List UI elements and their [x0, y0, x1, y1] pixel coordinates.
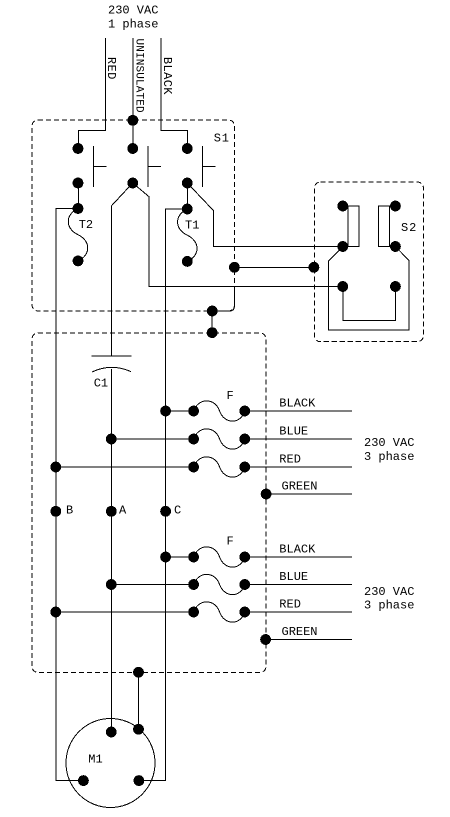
fuse F black1 [194, 401, 245, 421]
fuse terminal [188, 552, 199, 563]
wire output green2 [266, 639, 352, 641]
label 230 VAC 3 phase bank1 [364, 436, 414, 464]
switch S2 enclosure [314, 182, 423, 342]
svg-text:RED: RED [279, 598, 301, 612]
svg-text:BLACK: BLACK [279, 397, 316, 411]
S2 contact 2R [390, 241, 401, 252]
wire output black1 [245, 410, 352, 412]
motor terminal bottom left [78, 775, 89, 786]
switch S1 enclosure [32, 120, 235, 311]
S2 jumper bracket left [343, 206, 359, 247]
wire output green1 [266, 493, 352, 495]
fuse red1 [194, 457, 245, 477]
svg-text:230 VAC: 230 VAC [364, 585, 414, 599]
node phase B label [50, 506, 61, 517]
label 230 VAC 3 phase bank2 [364, 585, 414, 612]
wire BLACK input [161, 38, 188, 149]
svg-text:M1: M1 [88, 752, 102, 766]
svg-text:C: C [174, 503, 181, 517]
S2 contact 3L [337, 281, 348, 292]
S1 contact 3B [182, 178, 193, 189]
wire phase C drop [139, 209, 187, 781]
label 230 VAC 1 phase [108, 3, 158, 31]
node S2 boundary terminal [309, 262, 320, 273]
node phase A tap blue2 [106, 579, 117, 590]
wire UNINSULATED input [132, 38, 134, 149]
S1 pole bar 2 [148, 146, 161, 187]
wire A tap to fuse [111, 438, 193, 440]
svg-text:T1: T1 [185, 219, 199, 233]
fuse terminal [239, 552, 250, 563]
node input junction [127, 115, 138, 126]
wire row2 to T1 terminal [186, 183, 188, 209]
capacitor C1 [92, 356, 132, 372]
wire C tap to fuse [166, 410, 194, 412]
svg-text:RED: RED [104, 57, 118, 80]
svg-text:BLUE: BLUE [279, 425, 308, 439]
fuse terminal [188, 579, 199, 590]
S1 pole bar 1 [93, 146, 106, 187]
S2 contact 1R [390, 201, 401, 212]
svg-text:3 phase: 3 phase [364, 450, 414, 464]
node panel bottom terminal [133, 667, 144, 678]
node phase C tap black2 [160, 552, 171, 563]
S1 contact 1A [73, 143, 84, 154]
fuse terminal [239, 434, 250, 445]
svg-text:3 phase: 3 phase [364, 598, 414, 612]
S2 run winding outline [329, 247, 410, 331]
S1 contact 1B [73, 178, 84, 189]
node phase A label [106, 506, 117, 517]
S1 pole bar 3 [203, 146, 216, 187]
motor terminal top right [133, 724, 144, 735]
svg-text:T2: T2 [79, 218, 93, 232]
node phase B tap red1 [50, 462, 61, 473]
svg-text:BLACK: BLACK [160, 57, 174, 95]
node panel top terminal [207, 327, 218, 338]
S1 terminal T1 top [182, 204, 193, 215]
wire phase A branch [111, 183, 132, 356]
fuse terminal [239, 406, 250, 417]
node S1 bottom terminal [207, 306, 218, 317]
wire S1 to panel terminal [212, 286, 234, 332]
wire output blue1 [245, 438, 352, 440]
fuse terminal [188, 462, 199, 473]
fuse blue1 [194, 429, 245, 449]
svg-text:A: A [119, 503, 127, 517]
node phase B tap red2 [50, 607, 61, 618]
node green2 boundary terminal [260, 634, 271, 645]
fuse terminal [239, 579, 250, 590]
fuse red2 [194, 602, 245, 622]
svg-text:S2: S2 [401, 221, 417, 235]
svg-text:BLACK: BLACK [279, 543, 316, 557]
fuse terminal [188, 406, 199, 417]
S1 terminal T2 bottom [73, 256, 84, 267]
svg-text:GREEN: GREEN [282, 480, 318, 494]
wire A tap to fuse 2 [111, 584, 193, 586]
wire start branch to S2 [133, 183, 343, 286]
wire B tap to fuse 2 [56, 611, 194, 613]
wire row2 to T2 terminal [77, 183, 79, 209]
svg-text:C1: C1 [94, 377, 108, 391]
S2 contact 2L [337, 241, 348, 252]
wire RED input [78, 38, 105, 149]
wire output blue2 [245, 584, 352, 586]
wire S1-S2 link [234, 266, 314, 268]
jumper T1 [178, 209, 198, 261]
jumper T2 [68, 209, 88, 261]
svg-text:RED: RED [279, 453, 301, 467]
svg-text:1 phase: 1 phase [108, 17, 158, 31]
svg-text:230 VAC: 230 VAC [364, 436, 414, 450]
fuse terminal [188, 607, 199, 618]
svg-text:230 VAC: 230 VAC [108, 3, 158, 17]
fuse terminal [188, 434, 199, 445]
wire panel to motor [138, 672, 140, 729]
svg-text:F: F [227, 534, 234, 548]
wire output red2 [245, 611, 352, 613]
S1 terminal T1 bottom [182, 256, 193, 267]
svg-text:B: B [66, 503, 73, 517]
fuse terminal [239, 462, 250, 473]
wire run branch to S2 [187, 183, 342, 246]
node green1 boundary terminal [261, 489, 272, 500]
S2 contact 3R [390, 281, 401, 292]
wire phase B drop [56, 209, 84, 781]
fuse blue2 [194, 574, 245, 594]
svg-text:UNINSULATED: UNINSULATED [132, 39, 144, 114]
node phase A tap blue1 [106, 434, 117, 445]
node S1 boundary terminal [229, 262, 240, 273]
svg-text:S1: S1 [214, 132, 230, 146]
converter panel enclosure [32, 333, 266, 672]
svg-text:GREEN: GREEN [282, 625, 318, 639]
node phase C tap black1 [160, 406, 171, 417]
wire output black2 [245, 556, 352, 558]
S1 contact 2B [127, 178, 138, 189]
wire phase A lower [110, 369, 112, 732]
S2 jumper bracket right [378, 206, 395, 247]
fuse terminal [239, 607, 250, 618]
fuse black2 [194, 547, 245, 567]
motor terminal bottom right [134, 775, 145, 786]
S1 contact 3A [182, 143, 193, 154]
S1 terminal T2 top [73, 203, 84, 214]
svg-text:F: F [227, 389, 234, 403]
wire C tap to fuse 2 [166, 556, 194, 558]
S1 contact 2A [127, 143, 138, 154]
S2 contact 1L [337, 201, 348, 212]
node phase C label [160, 506, 171, 517]
wire output red1 [245, 466, 352, 468]
wire B tap to fuse [56, 466, 194, 468]
S2 start winding U [343, 287, 396, 321]
svg-text:BLUE: BLUE [279, 570, 308, 584]
motor M1 [66, 719, 155, 808]
motor terminal top left [106, 727, 117, 738]
